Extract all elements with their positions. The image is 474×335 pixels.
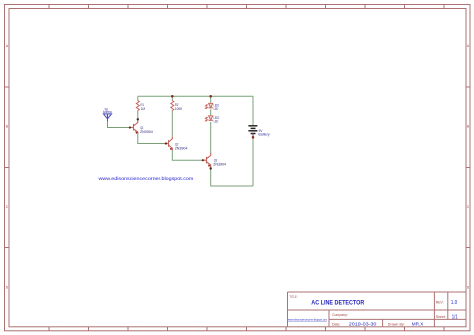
svg-text:1.0: 1.0 — [451, 300, 458, 306]
svg-text:2019-03-30: 2019-03-30 — [349, 321, 377, 326]
svg-text:Antenna: Antenna — [103, 110, 112, 114]
svg-text:TITLE:: TITLE: — [290, 295, 298, 299]
svg-text:Sheet:: Sheet: — [436, 314, 446, 319]
svg-text:www.edisonsciencecorner.blogsp: www.edisonsciencecorner.blogspot.com — [99, 176, 194, 182]
svg-text:B: B — [6, 124, 8, 128]
svg-text:AC LINE DETECTOR: AC LINE DETECTOR — [311, 300, 364, 307]
svg-text:2N3904: 2N3904 — [175, 145, 189, 150]
svg-text:www.edisonsciencecorner.blogsp: www.edisonsciencecorner.blogspot.com — [288, 318, 327, 322]
svg-text:1/1: 1/1 — [452, 315, 458, 321]
svg-text:LED: LED — [214, 106, 219, 111]
svg-text:Company:: Company: — [332, 312, 348, 317]
svg-text:2N3904: 2N3904 — [140, 129, 154, 134]
svg-text:100K: 100K — [175, 106, 183, 111]
svg-text:MR.X: MR.X — [412, 321, 424, 326]
svg-text:B: B — [467, 124, 469, 128]
svg-text:Date:: Date: — [332, 321, 340, 326]
svg-text:2N3904: 2N3904 — [213, 162, 227, 167]
svg-text:REV:: REV: — [436, 299, 444, 304]
svg-text:Drawn By:: Drawn By: — [388, 321, 405, 326]
svg-text:1M: 1M — [141, 106, 145, 111]
svg-text:LED: LED — [214, 118, 219, 123]
svg-text:Battery: Battery — [258, 132, 269, 137]
